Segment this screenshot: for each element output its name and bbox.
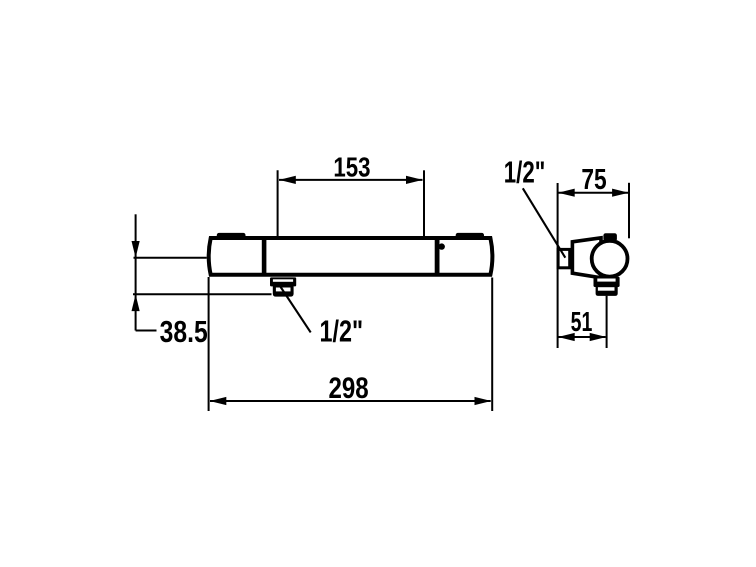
side outlet upper collar [594,277,620,287]
dimension 298 right arrow [475,397,492,405]
svg-text:38.5: 38.5 [160,315,208,349]
dimension 153 right arrow [406,176,423,184]
dimension 298 left extension line [208,277,210,411]
svg-text:51: 51 [571,306,593,337]
svg-text:153: 153 [333,152,370,183]
dimension 298 right extension line [491,278,493,412]
dimension 38.5 vertical line lower [135,258,137,331]
dimension 298 line [210,400,491,402]
dimension 51 line [559,336,606,338]
side view knob circle [592,241,628,277]
side outlet lower collar [596,286,618,296]
dimension 75 line [559,192,629,194]
left handle grip tab [217,233,246,240]
svg-text:298: 298 [329,372,369,405]
right handle grip tab [456,233,484,240]
dimension 75 left arrow [558,189,575,197]
svg-text:1/2": 1/2" [320,315,364,349]
dimension 153 line [279,179,423,181]
mixer bar body [209,238,493,275]
svg-text:75: 75 [581,164,606,196]
side view knob tab [603,233,617,241]
outlet lower collar (front view) [273,286,294,297]
right handle separation line [435,237,440,276]
dimension 38.5 down arrow [132,241,140,258]
dimension 75 right extension line [628,183,630,239]
outlet upper collar (front view) [270,277,296,286]
side view 1/2 inch leader line [523,188,566,257]
dimension 153 left arrow [279,176,296,184]
dimension 153 left extension line [277,170,279,253]
dimension 75/51 shared left extension line [557,183,559,348]
dimension 153 right extension line [423,170,425,253]
left handle separation line [262,237,267,276]
dimension 38.5 leader jog [136,330,157,332]
outlet 1/2 inch leader line (front view) [280,287,310,333]
dimension 38.5 upper reference line (bar centre) [134,257,207,259]
side view wall connector [558,249,570,267]
dimension 51 right arrow [590,333,607,341]
dimension 298 left arrow [210,397,227,405]
right handle index dot [439,243,445,249]
dimension 38.5 lower reference line (outlet bottom) [133,293,272,295]
dimension 38.5 vertical line upper [135,214,137,257]
svg-text:1/2": 1/2" [504,155,546,190]
dimension 51 right extension line / outlet centreline [606,296,608,348]
dimension 38.5 up arrow [132,294,140,311]
dimension 51 left arrow [558,333,575,341]
side view body trapezoid [572,238,601,278]
dimension 75 right arrow [612,189,629,197]
